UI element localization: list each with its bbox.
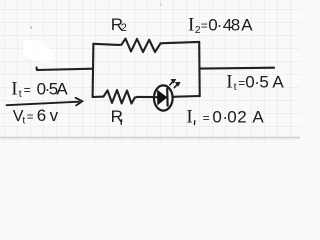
svg-text:6: 6 [37, 106, 46, 125]
svg-text:5: 5 [259, 73, 268, 92]
svg-text:=: = [24, 83, 31, 97]
svg-text:=: = [203, 111, 210, 125]
value I2 = 0.48 A [188, 15, 253, 37]
node B right junction vertical wire [198, 42, 201, 96]
value It = 0.5 A (right) [226, 72, 284, 94]
heavy ruled line bottom [0, 137, 300, 139]
value It = 0.5 A (left) [11, 79, 68, 101]
value Vt = 6 v [13, 106, 59, 127]
svg-text:v: v [50, 106, 59, 125]
svg-text:t: t [22, 115, 25, 127]
LED emission arrow 1 [170, 79, 176, 85]
value I1 = 0.02 A [186, 107, 264, 128]
svg-text:A: A [272, 73, 284, 92]
svg-text:2: 2 [237, 108, 246, 127]
paper background [0, 0, 300, 142]
node A left junction vertical wire [92, 44, 95, 97]
svg-text:t: t [19, 88, 22, 100]
svg-text:A: A [56, 80, 68, 99]
svg-text:=: = [201, 19, 208, 33]
resistor R1 [104, 90, 135, 104]
wire LED to node B [173, 95, 200, 98]
current direction arrow (It) [7, 98, 83, 106]
wire bottom-left [93, 96, 104, 99]
resistor R2 [119, 39, 161, 52]
svg-text:I: I [188, 15, 194, 36]
wire R1 to LED [135, 96, 154, 99]
svg-text:0: 0 [212, 108, 221, 127]
svg-text:8: 8 [231, 16, 240, 35]
label R2 [111, 15, 127, 34]
label R1 [111, 107, 123, 126]
stray pencil dots [30, 26, 32, 28]
svg-text:·: · [217, 16, 223, 35]
svg-text:2: 2 [121, 22, 127, 34]
LED D1 [154, 85, 173, 110]
wire top-right [161, 42, 200, 44]
wire input left [37, 68, 94, 71]
svg-text:A: A [241, 16, 253, 35]
svg-text:I: I [186, 107, 192, 128]
svg-text:I: I [226, 72, 232, 93]
wire top-left [93, 44, 118, 45]
svg-text:=: = [238, 76, 245, 90]
wire output right [200, 67, 275, 70]
svg-text:t: t [234, 81, 237, 93]
svg-text:0: 0 [227, 108, 236, 127]
white-out smudge [23, 40, 49, 60]
svg-text:=: = [27, 110, 34, 124]
svg-text:A: A [252, 108, 264, 127]
LED emission arrow 2 [174, 82, 180, 88]
svg-text:I: I [11, 79, 17, 100]
